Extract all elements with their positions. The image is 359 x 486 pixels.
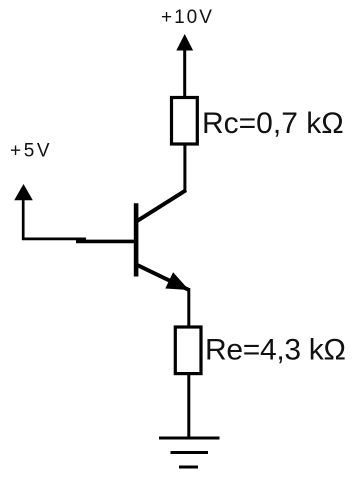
wire collector diagonal xyxy=(135,190,186,222)
svg-text:+10V: +10V xyxy=(161,7,214,28)
resistor R1 (Rc) xyxy=(172,98,198,145)
svg-text:+5V: +5V xyxy=(10,141,52,162)
transistor Q1 xyxy=(135,190,189,290)
power symbol +5V arrow xyxy=(14,184,86,239)
wire collector vertical xyxy=(183,144,186,192)
node +5V label xyxy=(10,141,52,162)
wire base lead xyxy=(76,240,135,244)
wire emitter diagonal xyxy=(135,264,189,290)
value label Rc=0,7 kOhm xyxy=(202,107,344,140)
emitter arrowhead xyxy=(165,272,189,290)
power symbol +10V arrow xyxy=(176,34,193,98)
ground xyxy=(159,438,220,467)
transistor Q1 base bar xyxy=(134,203,139,276)
value label Re=4,3 kOhm xyxy=(205,334,346,367)
svg-text:Rc=0,7 kΩ: Rc=0,7 kΩ xyxy=(202,107,344,140)
svg-text:Re=4,3 kΩ: Re=4,3 kΩ xyxy=(205,334,346,367)
resistor R2 (Re) xyxy=(175,327,201,374)
wire to ground xyxy=(187,374,190,439)
wire emitter vertical xyxy=(187,288,190,328)
node +10V label xyxy=(161,7,214,28)
